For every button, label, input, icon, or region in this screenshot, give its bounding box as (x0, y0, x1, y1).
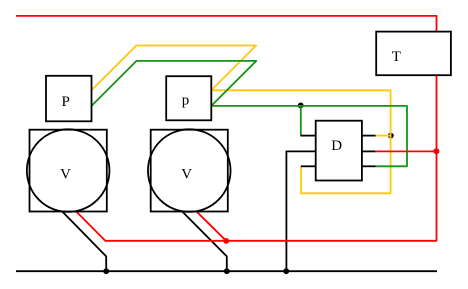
wire black stub D right pin3 (362, 165, 376, 167)
wire red diagonal from V2 to bottom red rail (196, 211, 226, 241)
junction dot red on right rail at D pin2 (433, 148, 439, 154)
meter V1 (27, 129, 110, 212)
box T (376, 32, 451, 76)
junction dot black on bottom bus at V1 drop (103, 268, 109, 274)
svg-text:T: T (392, 49, 401, 65)
junction dot on green horizontal (298, 103, 304, 109)
wire black stub D left pin3 (301, 165, 316, 167)
box D (316, 121, 362, 181)
junction dot at yellow vertical and D right pin1 (388, 133, 394, 139)
wire red net: top rail, right rail, bottom red rail and diagonal from V1 (16, 16, 437, 241)
svg-text:V: V (181, 166, 192, 182)
svg-text:p: p (182, 92, 190, 108)
svg-text:V: V (60, 166, 71, 182)
wire yellow net: P pin to p pin zigzag, right, down, bottom loop to D left pin3 (92, 46, 391, 194)
wire red from D right pin2 to right rail (375, 150, 436, 152)
wire black stub D right pin1 (362, 135, 376, 137)
box P1 (46, 76, 92, 122)
wire green branch from junction down to D left pin1 (300, 106, 302, 136)
wire black stub D right pin2 (362, 150, 376, 152)
junction dot black on bottom bus at V2 drop (224, 268, 230, 274)
svg-text:P: P (62, 94, 70, 110)
box p2 (166, 76, 211, 120)
wire black bottom bus (16, 270, 437, 272)
wire black D left pin2 down to bottom bus (286, 151, 315, 271)
wire black stub D left pin1 (301, 135, 316, 137)
junction dot black on bottom bus at D pin2 drop (283, 268, 289, 274)
svg-text:D: D (331, 138, 342, 154)
junction dot red on bottom red rail at V2 diagonal (223, 238, 229, 244)
wire green net: P pin to p pin zigzag, then to right vertical and D right pin3 (92, 61, 408, 166)
meter V2 (148, 129, 231, 212)
wire black V1 to bottom bus (62, 211, 106, 271)
wire yellow link from D right pin1 stub to junction dot (376, 135, 391, 137)
wire black V2 to bottom bus (182, 211, 227, 271)
